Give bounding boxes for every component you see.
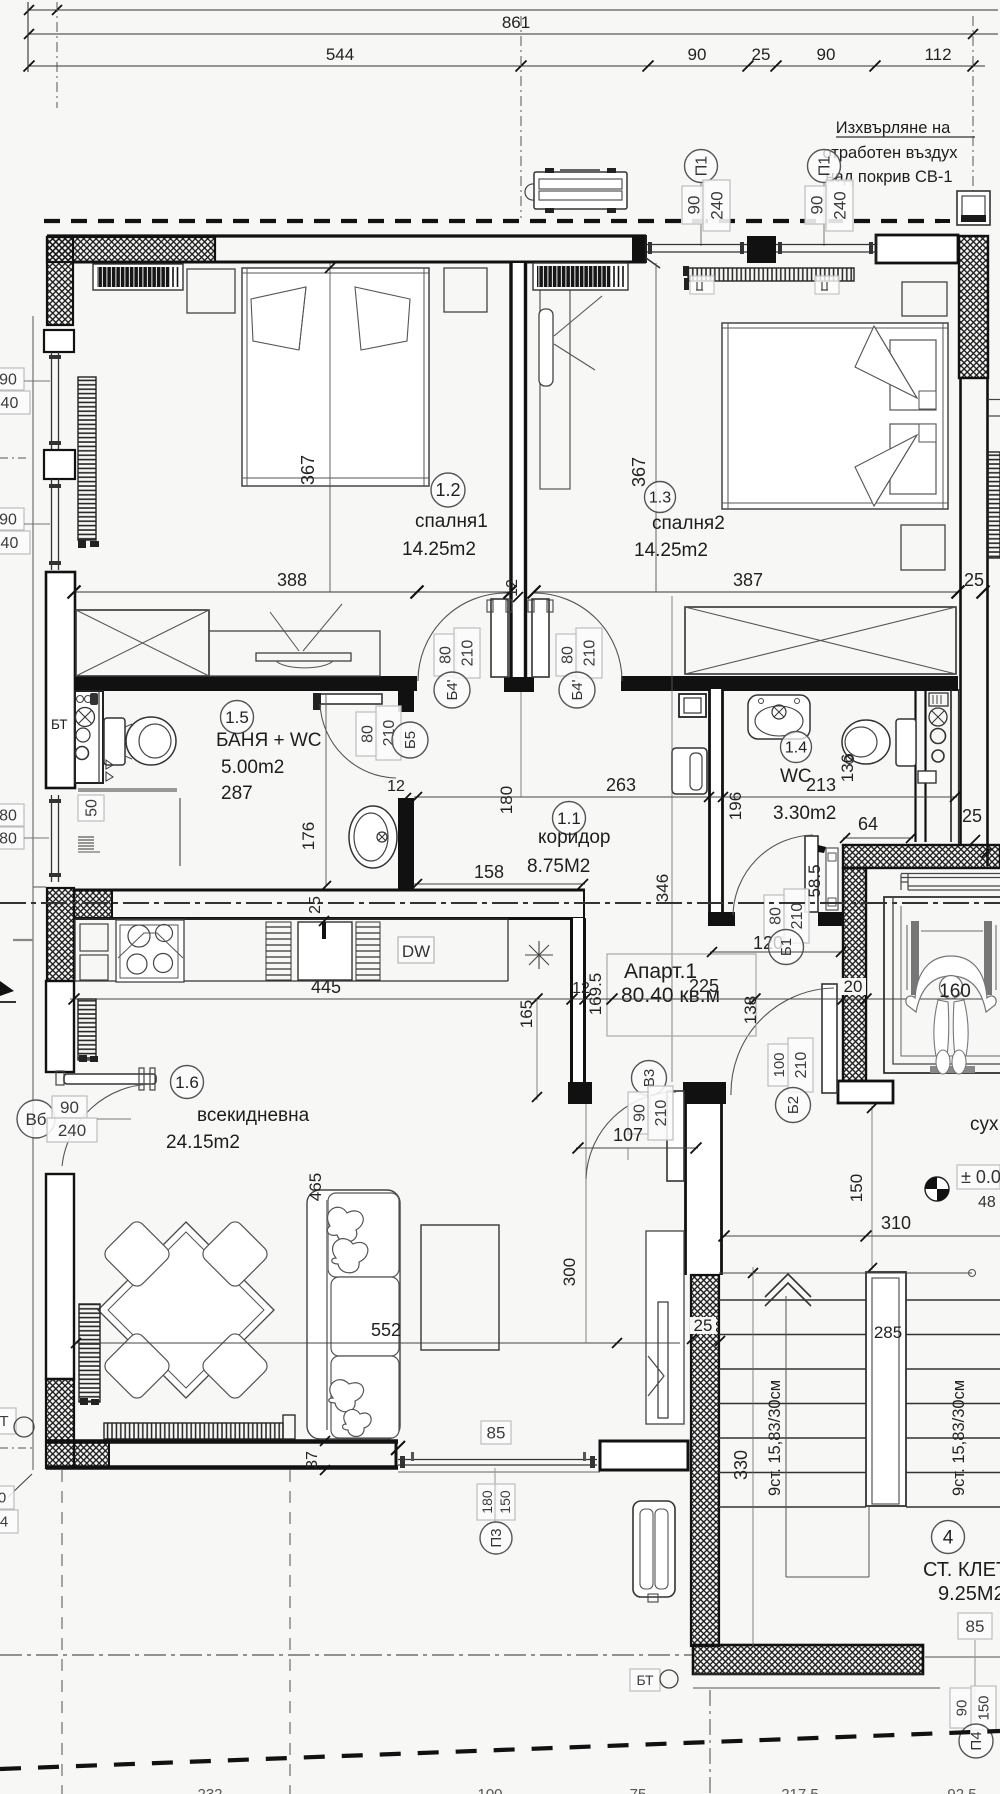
- svg-text:90: 90: [807, 196, 826, 215]
- svg-text:544: 544: [326, 45, 354, 64]
- svg-text:232: 232: [197, 1786, 222, 1794]
- washbasin bathroom: [349, 806, 397, 868]
- dim 150 vertical: [871, 1106, 873, 1270]
- apartment label box: [607, 954, 756, 1036]
- door Б1 WC: leaf: [805, 836, 818, 912]
- stair walk lines: [785, 1296, 787, 1577]
- dining table: [98, 1222, 274, 1398]
- svg-text:90: 90: [684, 196, 703, 215]
- kitchen counter: [75, 918, 508, 920]
- svg-text:75: 75: [630, 1786, 647, 1794]
- svg-text:9ст. 15,83/30см: 9ст. 15,83/30см: [766, 1380, 784, 1496]
- svg-text:4: 4: [943, 1527, 954, 1548]
- svg-text:90: 90: [60, 1098, 79, 1117]
- note leader line: [836, 136, 975, 138]
- radiator bedroom2 north: [688, 268, 854, 281]
- dim 330 stairs: [752, 1267, 754, 1646]
- svg-text:14.25m2: 14.25m2: [634, 540, 708, 561]
- wall: corridor top (WC side): [621, 676, 958, 691]
- wall: corridor top T-foot: [504, 677, 534, 692]
- svg-text:387: 387: [733, 570, 763, 590]
- tv screen: [658, 1302, 668, 1418]
- wall: staircase south hatched: [693, 1645, 923, 1674]
- window pier west top: [44, 330, 74, 352]
- svg-text:Т: Т: [0, 1413, 9, 1430]
- wall: west living room: [46, 1174, 74, 1379]
- radiator living south: [104, 1423, 283, 1439]
- wardrobe bar bedroom2: [533, 263, 628, 290]
- svg-text:9.25М2: 9.25М2: [938, 1583, 1000, 1605]
- wheelchair: wheels: [911, 921, 919, 995]
- label cut 80/80 west #3: [0, 804, 24, 826]
- window label П1 (left): [685, 150, 718, 183]
- main dim line y999: [70, 998, 995, 1000]
- svg-text:160: 160: [939, 981, 971, 1002]
- svg-text:4: 4: [0, 1514, 8, 1531]
- svg-text:80: 80: [0, 807, 17, 824]
- svg-text:217.5: 217.5: [781, 1786, 819, 1794]
- door В3 living: swing arc: [586, 1092, 676, 1179]
- wall: kitchen east: [571, 918, 585, 1083]
- stair stringer: [866, 1272, 906, 1506]
- nightstand bedroom1 right: [444, 268, 487, 312]
- wardrobe X bedroom2: [685, 607, 956, 674]
- svg-text:240: 240: [0, 535, 18, 552]
- wardrobe X bedroom1: [76, 610, 209, 676]
- axis dash-dot bottom: [0, 1654, 692, 1656]
- wall: west БТ section: [46, 572, 75, 788]
- svg-text:90: 90: [0, 371, 17, 388]
- radiator label small left: [690, 276, 714, 294]
- label 85 staircase window: [958, 1613, 992, 1639]
- svg-text:240: 240: [830, 191, 849, 219]
- sofa: [307, 1190, 400, 1439]
- door Б1 WC: niche bar 58.5: [826, 848, 838, 910]
- wall: elevator hatched west: [843, 868, 866, 1081]
- svg-text:80: 80: [559, 646, 576, 664]
- svg-text:367: 367: [629, 457, 649, 487]
- wall: corridor top (bathroom side): [74, 676, 417, 691]
- bed1: [242, 268, 429, 486]
- wall: west below kitchen: [46, 981, 74, 1072]
- dim 388 bedroom1: [74, 591, 510, 593]
- axis line vertical center: [520, 16, 522, 218]
- svg-text:1.6: 1.6: [175, 1073, 199, 1092]
- svg-text:388: 388: [277, 570, 307, 590]
- svg-text:80: 80: [767, 907, 784, 925]
- door В3 living: labels: [632, 1061, 667, 1096]
- door Б5 bathroom: labels: [356, 712, 378, 756]
- svg-text:DW: DW: [402, 942, 430, 961]
- wall: elevator foot white: [838, 1081, 893, 1103]
- door Б4' bedroom2: swing arc: [534, 593, 622, 681]
- nightstand bedroom2 bottom: [901, 525, 945, 570]
- svg-text:165: 165: [517, 1000, 536, 1028]
- window: west W3 (bathroom): [51, 795, 53, 882]
- boiler corridor: [672, 748, 707, 794]
- radiator living west #2: [79, 1304, 100, 1402]
- svg-text:100: 100: [477, 1786, 502, 1794]
- svg-text:П1: П1: [816, 156, 833, 177]
- svg-text:90: 90: [688, 45, 707, 64]
- svg-text:20: 20: [844, 977, 863, 996]
- wall: west exterior upper hatched: [47, 237, 73, 325]
- radiator living west: [78, 999, 96, 1060]
- room label 1.1: [553, 802, 586, 835]
- chair top-right: [200, 1219, 271, 1290]
- label cut 90/240 west #1: [0, 368, 24, 390]
- svg-text:240: 240: [707, 191, 726, 219]
- wheelchair: legs: [934, 1000, 949, 1056]
- svg-text:СТ. КЛЕТКА: СТ. КЛЕТКА: [923, 1559, 1000, 1581]
- plumbing column bathroom: [75, 691, 103, 783]
- door Б2 entry: labels: [768, 1044, 790, 1086]
- room label 1.5: [221, 701, 254, 734]
- svg-text:196: 196: [726, 792, 745, 820]
- convector staircase lobby: [633, 1501, 675, 1597]
- dim 20 shaft: [841, 978, 866, 995]
- window sill marks П3: [411, 1452, 414, 1461]
- svg-text:90: 90: [954, 1700, 971, 1717]
- dim 367 bedroom1: [329, 263, 331, 592]
- wall: WC west: [710, 689, 723, 912]
- svg-text:Б4': Б4': [444, 679, 461, 700]
- svg-text:1.4: 1.4: [785, 739, 807, 756]
- terrain dashed line: [0, 1731, 1000, 1769]
- wall: north exterior (bedroom1): [47, 234, 646, 237]
- svg-text:552: 552: [371, 1320, 401, 1340]
- svg-text:180: 180: [479, 1490, 495, 1514]
- svg-text:25: 25: [962, 806, 982, 826]
- dim 85 box south window: [481, 1421, 511, 1444]
- chair bottom-right: [200, 1331, 271, 1402]
- svg-text:107: 107: [613, 1125, 643, 1145]
- door Б5 bathroom: leaf: [318, 694, 382, 704]
- west corner diagonal: [8, 1474, 32, 1497]
- label cut 90/240 west #2: [0, 508, 24, 530]
- closet door swing V: [554, 296, 602, 336]
- nightstand bedroom2 top: [902, 282, 947, 316]
- dim 367 bedroom2: [655, 263, 657, 592]
- svg-text:213: 213: [806, 775, 836, 795]
- kitchen sink cabinets: [80, 924, 108, 951]
- svg-text:210: 210: [459, 640, 476, 667]
- tv on dresser: [256, 653, 351, 661]
- svg-text:П3: П3: [488, 1528, 505, 1547]
- window: bedroom2 north #1: [646, 244, 747, 246]
- svg-text:Б4': Б4': [569, 679, 586, 700]
- wall: south pier white: [600, 1441, 688, 1470]
- svg-text:П1: П1: [693, 156, 710, 177]
- wall: WC door stub black: [818, 912, 843, 926]
- wall: bathroom east lower stub: [398, 798, 414, 890]
- wall: NE corner hatched: [959, 236, 988, 378]
- door Б4' bedroom1: swing arc: [418, 593, 506, 681]
- svg-text:287: 287: [221, 783, 253, 804]
- svg-text:58.5: 58.5: [805, 864, 824, 897]
- dim 64: [843, 837, 913, 839]
- svg-text:92.5: 92.5: [947, 1786, 976, 1794]
- el panel corridor: [679, 694, 706, 717]
- section line A-A: [0, 902, 1000, 904]
- benchmark symbol: [925, 1177, 949, 1201]
- svg-text:всекидневна: всекидневна: [197, 1105, 310, 1126]
- door Б4' bedroom2: labels: [556, 634, 578, 676]
- bed2: [722, 323, 948, 509]
- svg-text:225: 225: [689, 976, 719, 996]
- chair bottom-left: [102, 1331, 173, 1402]
- door Б4' bedroom2: leaf: [532, 599, 549, 677]
- svg-text:48: 48: [978, 1194, 996, 1211]
- wall stub to neighbour east: [988, 399, 1000, 401]
- counter hatch 1: [266, 922, 291, 980]
- svg-text:± 0.0: ± 0.0: [961, 1167, 1000, 1187]
- svg-text:14.25m2: 14.25m2: [402, 539, 476, 560]
- svg-text:12: 12: [387, 778, 405, 795]
- dim line top 861: [28, 9, 998, 11]
- door Б5 bathroom: swing arc: [320, 704, 396, 778]
- chair top-left: [102, 1219, 173, 1290]
- svg-text:9ст. 15,83/30см: 9ст. 15,83/30см: [950, 1380, 968, 1496]
- svg-text:25: 25: [694, 1316, 713, 1335]
- wall: corridor bottom stub east: [837, 1082, 866, 1104]
- window label П1 (right): [808, 150, 841, 183]
- section arrow left edge: [0, 981, 14, 996]
- door Вб balcony: swing arc: [62, 1084, 152, 1166]
- wall: south-west corner hatched piece: [74, 1441, 109, 1468]
- door Вб balcony: labels: [17, 1100, 55, 1138]
- svg-text:П4: П4: [968, 1731, 985, 1750]
- svg-text:1.1: 1.1: [557, 809, 581, 828]
- svg-text:210: 210: [581, 640, 598, 667]
- svg-text:90: 90: [631, 1104, 648, 1122]
- svg-text:90: 90: [0, 511, 17, 528]
- stairs right flight: [906, 1300, 1000, 1507]
- svg-text:150: 150: [497, 1490, 513, 1514]
- svg-text:Б5: Б5: [402, 731, 419, 749]
- dim 346 corridor: [671, 596, 673, 1082]
- toilet WC: bowl: [842, 720, 890, 764]
- svg-text:25: 25: [964, 570, 984, 590]
- dim 310: [722, 1235, 1000, 1237]
- radiator label small right: [815, 276, 839, 294]
- nightstand bedroom1 left: [187, 269, 235, 313]
- room label 1.2 bedroom1: [431, 473, 465, 507]
- wall: bedroom partition: [510, 263, 527, 681]
- stove: [116, 920, 184, 982]
- dim line top 544/90/25/90/112: [28, 65, 985, 67]
- svg-text:сух: сух: [970, 1114, 999, 1135]
- svg-text:285: 285: [874, 1323, 902, 1342]
- axis dash west: [0, 457, 30, 459]
- elevator car: [884, 897, 1000, 1073]
- room label 4 staircase: [932, 1521, 965, 1554]
- door Б2 entry: leaf: [822, 984, 837, 1093]
- roof overhang dashed line: [44, 219, 940, 223]
- coffee table: [421, 1225, 499, 1350]
- axis line vertical right to vent: [972, 16, 974, 193]
- stairs left flight: [719, 1300, 866, 1507]
- door Б1 WC: labels: [764, 895, 786, 937]
- dim 552: [74, 1342, 680, 1344]
- wall: corridor bottom piece mid (stair wall top): [683, 1082, 726, 1104]
- svg-text:80: 80: [0, 830, 17, 847]
- svg-text:3.30m2: 3.30m2: [773, 803, 836, 824]
- shower screen gray: [78, 788, 177, 792]
- svg-text:8.75М2: 8.75М2: [527, 856, 590, 877]
- svg-text:136: 136: [838, 754, 857, 782]
- svg-text:спалня1: спалня1: [415, 511, 488, 532]
- svg-text:В3: В3: [641, 1069, 658, 1087]
- svg-text:465: 465: [306, 1173, 325, 1201]
- room label 1.6: [171, 1066, 204, 1099]
- window: bedroom2 north #2: [776, 244, 876, 246]
- svg-text:1.5: 1.5: [225, 708, 249, 727]
- radiator neighbour east: [988, 452, 1000, 558]
- dim 25 stair wall: [690, 1317, 716, 1334]
- radiator bedroom1 west: [78, 377, 96, 540]
- bed1 pillows: [251, 287, 306, 350]
- svg-text:310: 310: [881, 1213, 911, 1233]
- shaft east of WC: [950, 689, 952, 842]
- svg-text:0: 0: [0, 1490, 6, 1507]
- svg-text:50: 50: [83, 799, 100, 817]
- wall: south living room: [46, 1439, 398, 1444]
- shaft fixtures WC east: [929, 693, 948, 706]
- wall: north exterior (bedroom2 right): [876, 235, 958, 263]
- svg-text:Изхвърляне на: Изхвърляне на: [836, 119, 951, 137]
- door Б1 WC: swing arc: [733, 835, 813, 915]
- plant top: [327, 1207, 363, 1242]
- kitchen sink: [298, 922, 352, 980]
- label DW: [398, 937, 434, 963]
- wall: elevator hatched north: [843, 845, 1000, 868]
- dim 107: [576, 1147, 698, 1149]
- svg-text:25: 25: [752, 45, 771, 64]
- bed2 pillow top: [890, 340, 936, 410]
- wall: WC east: [914, 689, 916, 842]
- svg-text:169.5: 169.5: [586, 973, 605, 1016]
- wall: east exterior: [959, 378, 962, 845]
- vent pipe box СВ-1: [957, 191, 990, 225]
- svg-text:80: 80: [437, 646, 454, 664]
- door Б4' bedroom1: leaf: [491, 599, 508, 677]
- wall: kitchen/bathroom: [74, 889, 585, 892]
- wall: kitchen corner hatched piece: [74, 890, 112, 919]
- dim 120 line: [710, 951, 843, 953]
- door Вб balcony: leaf: [64, 1074, 156, 1084]
- floor drain arrows: [106, 760, 113, 781]
- wall: north end cap black: [632, 235, 647, 263]
- svg-text:100: 100: [771, 1052, 788, 1077]
- elevator door: [901, 873, 1000, 875]
- wall: bathroom east upper: [398, 676, 414, 712]
- label БТ staircase: [630, 1669, 660, 1691]
- svg-text:Б2: Б2: [785, 1096, 802, 1114]
- room label 1.4: [781, 732, 812, 763]
- svg-text:Вб: Вб: [25, 1110, 46, 1129]
- svg-text:12: 12: [504, 579, 521, 597]
- staircase south leader: [925, 1656, 1000, 1658]
- toilet bathroom: bowl: [126, 717, 176, 765]
- svg-text:90: 90: [817, 45, 836, 64]
- label П4 staircase window: [950, 1688, 973, 1728]
- partition axis extension: [520, 692, 522, 797]
- toilet WC: tank: [896, 719, 916, 766]
- П3 leader: [494, 1468, 496, 1523]
- wall: west living hatched: [46, 1379, 74, 1468]
- wall: WC west foot: [708, 912, 735, 926]
- svg-text:отработен въздух: отработен въздух: [822, 144, 958, 162]
- svg-text:138: 138: [741, 996, 760, 1024]
- small box on WC wall: [918, 771, 936, 783]
- svg-text:240: 240: [58, 1121, 86, 1140]
- svg-text:263: 263: [606, 775, 636, 795]
- svg-text:346: 346: [653, 874, 672, 902]
- window: west W2 (bedroom1): [51, 479, 53, 570]
- wall: west kitchen hatched: [47, 888, 74, 981]
- svg-text:210: 210: [653, 1100, 670, 1127]
- svg-text:64: 64: [858, 814, 878, 834]
- window pier black bedroom2: [747, 236, 776, 263]
- axis line vertical left: [27, 2, 29, 72]
- svg-text:1.3: 1.3: [649, 489, 671, 506]
- svg-text:85: 85: [487, 1423, 506, 1442]
- svg-text:150: 150: [847, 1174, 866, 1202]
- svg-text:210: 210: [789, 903, 806, 930]
- svg-text:158: 158: [474, 862, 504, 882]
- fan unit СВ-1: [534, 172, 627, 209]
- dim 165: [536, 999, 538, 1100]
- svg-text:112: 112: [924, 45, 951, 64]
- wardrobe bar bedroom1 north: [93, 264, 183, 290]
- svg-text:5.00m2: 5.00m2: [221, 757, 284, 778]
- label 50 box: [78, 795, 104, 821]
- svg-text:БТ: БТ: [636, 1672, 654, 1688]
- svg-text:330: 330: [731, 1450, 751, 1480]
- washbasin WC: [748, 695, 810, 739]
- shower grate: [78, 837, 94, 849]
- label plus-minus 0.0: [957, 1165, 1000, 1189]
- room label 1.3 bedroom2: [645, 482, 676, 513]
- dim 158 kitchen nook: [414, 883, 585, 885]
- label cut boxes SW: [0, 1486, 14, 1509]
- dresser TV bedroom1: [209, 631, 380, 676]
- svg-text:367: 367: [298, 455, 318, 485]
- closet bedroom2: outline: [540, 289, 570, 489]
- svg-text:Апарт.1: Апарт.1: [624, 960, 697, 983]
- svg-text:24.15m2: 24.15m2: [166, 1132, 240, 1153]
- tv cabinet living: [646, 1231, 684, 1424]
- wall: staircase west: [686, 1104, 722, 1275]
- svg-text:240: 240: [0, 395, 18, 412]
- dim line stairs top: [719, 1272, 972, 1274]
- wheelchair: seat and person: [921, 930, 983, 932]
- window: south П3: [398, 1459, 597, 1461]
- svg-text:861: 861: [502, 13, 530, 32]
- svg-text:37: 37: [304, 1451, 321, 1469]
- door Б4' bedroom1: labels: [434, 634, 456, 676]
- closet door leaf pill: [539, 309, 553, 386]
- stair direction chevron: [765, 1274, 811, 1297]
- window pier west mid: [44, 450, 75, 479]
- svg-text:1.2: 1.2: [435, 480, 460, 500]
- dim 176 bathroom: [325, 694, 327, 886]
- svg-text:коридор: коридор: [538, 827, 611, 848]
- door В3 living: leaf: [667, 1091, 684, 1181]
- label П3 window: [477, 1484, 497, 1520]
- bed2 pillow bottom: [890, 424, 936, 494]
